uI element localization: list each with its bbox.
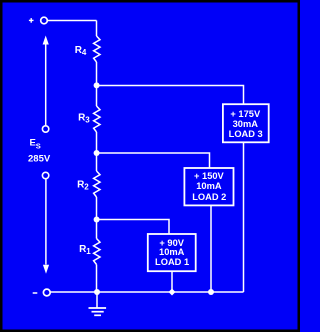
label R2 <box>77 179 89 191</box>
load box LOAD 2 <box>184 168 233 205</box>
wire: LOAD 2 bottom to bus <box>210 206 212 293</box>
source inner circle upper <box>42 126 48 132</box>
svg-text:LOAD 3: LOAD 3 <box>229 129 263 139</box>
junction node A (R4/R3, tap to LOAD 3) <box>94 82 100 88</box>
negative terminal circle <box>43 289 50 296</box>
wire: R3 to R2 through node B <box>96 132 98 171</box>
label R3 <box>78 112 90 124</box>
svg-text:LOAD 2: LOAD 2 <box>192 192 226 202</box>
source arrow pointing up toward + <box>45 44 47 126</box>
load box LOAD 3 <box>223 104 269 142</box>
junction: LOAD 2 return on bus <box>208 289 214 295</box>
resistor R3 <box>94 106 100 132</box>
svg-text:LOAD 1: LOAD 1 <box>155 257 189 267</box>
svg-text:+ 175V: + 175V <box>230 109 261 119</box>
source inner circle lower <box>42 172 48 178</box>
svg-text:30mA: 30mA <box>233 119 259 129</box>
wire: node A to LOAD 3 top <box>97 86 244 104</box>
junction node B (R3/R2, tap to LOAD 2) <box>94 150 100 156</box>
svg-text:+ 150V: + 150V <box>194 171 225 181</box>
svg-text:1: 1 <box>86 247 91 256</box>
load box LOAD 1 <box>148 234 196 271</box>
source arrow pointing down toward - <box>45 179 47 265</box>
label R4 <box>75 45 87 57</box>
wire: R4 to R3 through node A <box>96 62 98 106</box>
wire: R1 down to bottom bus <box>96 265 98 293</box>
svg-text:10mA: 10mA <box>159 247 185 257</box>
plus sign of source <box>29 18 34 23</box>
resistor R4 <box>94 36 100 62</box>
wire: node B to LOAD 2 top <box>97 153 210 168</box>
wire: chain top down to R4 <box>96 21 98 37</box>
wire: LOAD 1 bottom to bus <box>171 272 173 293</box>
wire: R2 to R1 through node C <box>96 197 98 239</box>
minus sign of source <box>33 292 38 294</box>
svg-text:2: 2 <box>84 183 89 192</box>
resistor R1 <box>94 239 100 265</box>
positive terminal circle <box>41 17 48 24</box>
svg-text:285V: 285V <box>28 154 51 165</box>
svg-text:4: 4 <box>82 48 87 57</box>
svg-text:S: S <box>36 141 41 150</box>
resistor R2 <box>94 171 100 197</box>
wire: node C to LOAD 1 top <box>97 220 170 235</box>
wire: + terminal to top of divider chain <box>47 20 96 22</box>
label R1 <box>79 244 91 256</box>
wire: LOAD 3 bottom to bus <box>243 143 245 293</box>
junction: LOAD 1 return on bus <box>169 289 176 296</box>
junction: chain at bottom bus / ground <box>94 289 100 295</box>
junction node C (R2/R1, tap to LOAD 1) <box>94 217 100 223</box>
ground <box>89 292 107 315</box>
svg-text:3: 3 <box>85 116 90 125</box>
wire: bottom bus (negative rail) <box>50 291 244 293</box>
svg-text:10mA: 10mA <box>196 181 222 191</box>
